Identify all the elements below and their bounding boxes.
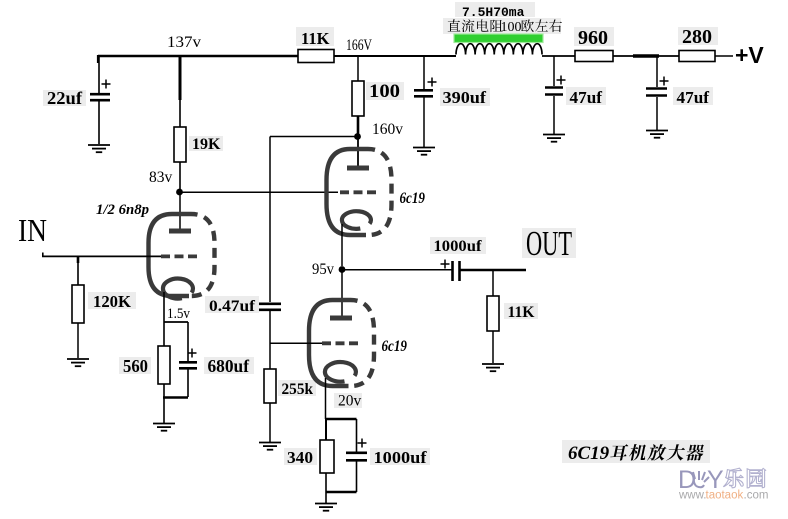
svg-text:47uf: 47uf — [677, 88, 710, 107]
capacitor 1000uf output plates — [453, 261, 460, 281]
capacitor 47uf first plates — [545, 88, 563, 95]
resistor 100 — [352, 81, 364, 116]
tube 6n8p plate bar — [169, 229, 191, 234]
svg-text:11K: 11K — [508, 304, 535, 321]
wire 100 to node 160v — [357, 116, 360, 134]
svg-text:6c19: 6c19 — [382, 338, 408, 355]
resistor 560 — [158, 346, 170, 384]
wire cathode lower 6c19 — [325, 378, 327, 419]
wire cathode network bottom — [163, 396, 188, 399]
capacitor 0.47uf plates — [259, 304, 281, 310]
ground 47uf second — [646, 131, 668, 138]
wire grid of upper 6c19 — [181, 191, 338, 193]
svg-text:taotaok: taotaok — [706, 490, 744, 502]
wire to 560 — [163, 322, 165, 346]
svg-text:IN: IN — [18, 212, 47, 248]
svg-text:OUT: OUT — [526, 224, 572, 263]
svg-text:11K: 11K — [301, 29, 330, 48]
polarity plus output cap — [441, 260, 450, 269]
ground 11K out — [482, 364, 504, 371]
svg-text:1/2 6n8p: 1/2 6n8p — [96, 202, 149, 218]
svg-text:390uf: 390uf — [443, 88, 487, 107]
capacitor 47uf second lead — [656, 56, 658, 130]
polarity plus 22uf — [102, 80, 111, 89]
label DC resistance chinese — [448, 19, 562, 35]
resistor 11K out — [487, 296, 499, 331]
svg-text:www.: www. — [678, 490, 706, 502]
tube lower 6c19 plate bar — [330, 316, 352, 321]
svg-text:95v: 95v — [312, 261, 334, 278]
capacitor 22uf lead — [98, 56, 100, 144]
polarity plus 47uf second — [660, 77, 669, 86]
svg-text:22uf: 22uf — [47, 88, 82, 108]
tube upper 6c19 plate lead — [357, 138, 359, 166]
wire rail 11K to inductor — [334, 55, 456, 57]
svg-text:83v: 83v — [149, 169, 173, 186]
wire 11K out to ground — [492, 331, 494, 363]
wire drop to 11K out — [492, 270, 494, 296]
resistor 340 — [320, 440, 334, 473]
tube lower 6c19 cathode — [325, 362, 356, 382]
node 160v — [354, 133, 361, 140]
node 83v — [176, 189, 183, 196]
polarity plus 47uf first — [557, 76, 566, 85]
resistor 120K — [72, 285, 84, 323]
resistor 280 — [679, 51, 715, 62]
wire to 340 — [325, 419, 327, 440]
watermark DIY logo — [678, 466, 724, 494]
tube lower 6c19 envelope — [309, 300, 374, 386]
watermark leyuan — [724, 468, 766, 488]
svg-text:1000uf: 1000uf — [374, 448, 427, 467]
wire inductor to 960 — [542, 55, 575, 57]
svg-text:20v: 20v — [338, 393, 362, 410]
wire 120K to ground — [77, 323, 79, 358]
svg-text:0.47uf: 0.47uf — [209, 298, 256, 315]
wire 160v to coupling drop — [270, 136, 355, 138]
resistor 255k — [264, 369, 276, 403]
tube upper 6c19 grid — [340, 190, 378, 194]
wire grid lower 6c19 — [270, 342, 322, 344]
polarity plus 390uf — [428, 78, 437, 87]
wire bottom join — [326, 491, 357, 494]
svg-text:1000uf: 1000uf — [434, 238, 483, 255]
wire plate lead 6n8p — [179, 194, 181, 229]
ground 340 — [315, 504, 337, 511]
resistor 19K — [174, 127, 186, 162]
svg-text:137v: 137v — [167, 34, 201, 51]
wire cathode 6n8p — [163, 292, 165, 322]
wire to +V — [715, 55, 733, 57]
wire 340 bottom — [325, 473, 327, 492]
wire top rail left — [98, 55, 298, 63]
ground 560 — [153, 424, 175, 431]
wire 19K to node — [179, 162, 181, 190]
wire to ground 340 — [325, 492, 327, 503]
watermark url — [678, 490, 768, 502]
wire cathode upper 6c19 — [341, 224, 343, 266]
ground 22uf — [88, 145, 110, 152]
svg-text:100: 100 — [501, 20, 522, 35]
label halos — [43, 2, 718, 465]
inductor 7.5H — [456, 44, 542, 55]
tube lower 6c19 grid — [322, 341, 360, 345]
tube upper 6c19 cathode — [342, 211, 371, 229]
capacitor 1000uf bottom plates — [346, 453, 367, 461]
wire drop to 100 — [357, 56, 359, 81]
ground 255k — [259, 443, 281, 450]
wire output — [460, 269, 527, 272]
svg-text:255k: 255k — [282, 381, 314, 398]
ground 47uf first — [543, 135, 565, 142]
ground 120K — [67, 359, 89, 366]
tube lower 6c19 plate lead — [341, 272, 343, 316]
tube upper 6c19 plate bar — [347, 166, 369, 171]
wire 560 bottom — [163, 384, 165, 397]
svg-text:280: 280 — [682, 26, 712, 48]
svg-text:960: 960 — [578, 27, 608, 49]
wire input — [42, 253, 161, 258]
capacitor 1000uf bottom lead — [356, 419, 358, 492]
ground 390uf — [413, 148, 435, 155]
svg-text:19K: 19K — [192, 136, 221, 153]
inductor highlight bar — [454, 34, 543, 43]
svg-text:340: 340 — [287, 448, 313, 467]
capacitor 680uf plates — [179, 362, 197, 368]
polarity plus 680uf — [188, 349, 197, 358]
svg-text:1.5v: 1.5v — [167, 306, 190, 322]
svg-text:120K: 120K — [93, 292, 131, 311]
resistor 960 — [575, 51, 613, 62]
wire 960 to 280 — [613, 55, 679, 57]
tube upper 6c19 envelope — [327, 149, 392, 235]
svg-text:680uf: 680uf — [208, 356, 250, 376]
wire drop to 19K — [179, 56, 182, 127]
svg-text:166V: 166V — [346, 37, 373, 54]
capacitor 680uf lead — [187, 322, 189, 397]
polarity plus 1000uf bottom — [358, 439, 367, 448]
svg-text:160v: 160v — [372, 121, 403, 138]
node 95v — [339, 266, 346, 273]
svg-text:7.5H70ma: 7.5H70ma — [462, 5, 525, 20]
svg-text:47uf: 47uf — [570, 88, 603, 107]
wire 95v to output cap — [345, 269, 452, 271]
tube 6n8p cathode — [163, 279, 193, 299]
wire cathode lower bend — [326, 418, 357, 421]
capacitor 390uf plates — [414, 90, 433, 96]
watermark hand icon — [693, 471, 709, 487]
svg-text:.com: .com — [744, 490, 769, 502]
wire drop to 0.47uf — [269, 137, 271, 303]
svg-text:6c19: 6c19 — [400, 190, 426, 207]
wire 255k to ground — [269, 403, 271, 442]
wire drop to 120K — [77, 256, 80, 285]
svg-text:+V: +V — [735, 42, 764, 68]
capacitor 390uf lead — [423, 56, 425, 147]
capacitor 47uf first lead — [553, 56, 555, 134]
capacitor 47uf second plates — [646, 89, 667, 96]
tube 6n8p grid — [161, 254, 198, 258]
capacitor 22uf plates — [90, 94, 110, 100]
resistor 11K — [298, 50, 334, 63]
wire to ground 560 — [163, 397, 165, 423]
svg-text:560: 560 — [123, 356, 148, 376]
svg-text:6C19: 6C19 — [568, 443, 610, 464]
wire cathode bend — [164, 321, 188, 323]
title 6C19 amp — [568, 443, 705, 464]
svg-text:100: 100 — [369, 81, 400, 102]
wire 0.47uf to 255k — [269, 311, 271, 369]
tube 6n8p envelope — [149, 214, 215, 296]
